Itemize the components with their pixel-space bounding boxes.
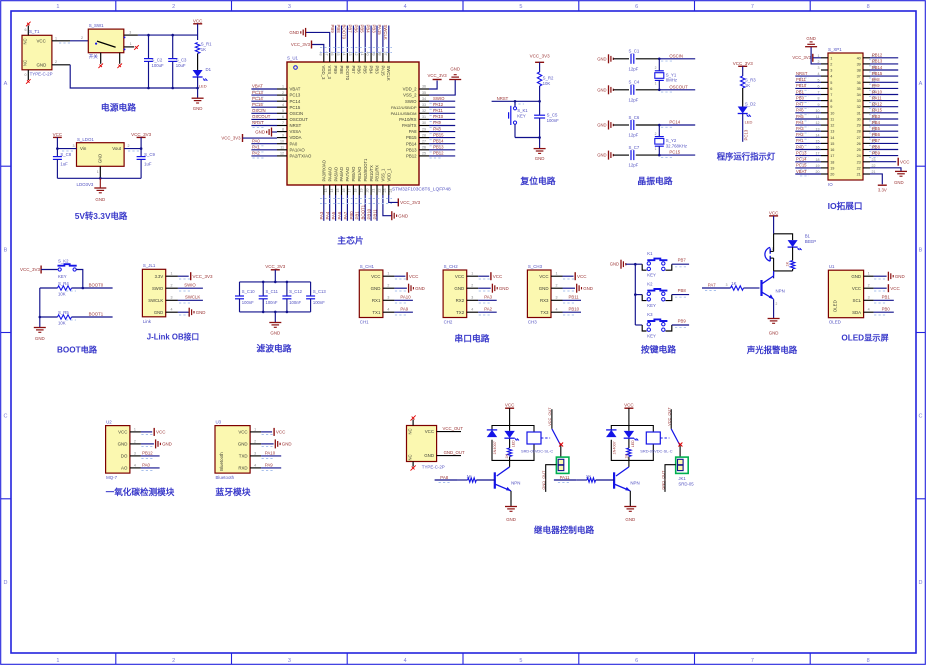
svg-text:CH3: CH3 [528, 320, 537, 325]
svg-text:4: 4 [556, 308, 558, 312]
svg-text:VCC_3V3: VCC_3V3 [428, 73, 448, 78]
svg-text:1: 1 [97, 170, 99, 174]
svg-text:10K: 10K [543, 81, 551, 86]
wire net PA1 header left [795, 142, 821, 144]
wire net PB7 [672, 263, 689, 265]
svg-text:VCC: VCC [425, 429, 434, 434]
svg-text:NRST: NRST [252, 120, 264, 125]
svg-text:DO: DO [121, 454, 128, 459]
svg-text:40: 40 [857, 56, 861, 60]
LED D1 [193, 70, 203, 77]
svg-text:PA3: PA3 [484, 295, 492, 300]
wire net PC14 [251, 100, 277, 102]
svg-text:GND: GND [282, 442, 292, 447]
svg-text:PA3/RX/AO: PA3/RX/AO [322, 160, 327, 181]
S_CH3 pin3 wire net PB11 [551, 299, 563, 301]
svg-text:37: 37 [857, 75, 861, 79]
wire net PA15 [382, 26, 384, 54]
svg-text:PA10/RX: PA10/RX [399, 117, 416, 122]
relay switch contact [541, 437, 550, 439]
svg-text:1: 1 [471, 272, 473, 276]
switch S_SW1 [88, 29, 124, 53]
svg-text:PA6: PA6 [337, 211, 342, 219]
svg-text:PB12: PB12 [406, 154, 417, 159]
svg-text:PB14: PB14 [872, 65, 883, 70]
wire R2 to NRST node [539, 86, 541, 101]
svg-text:GND: GND [894, 180, 904, 185]
J-Link pin3 wire net SWCLK [166, 299, 178, 301]
svg-text:GND: GND [806, 36, 816, 41]
svg-text:PA4/AO: PA4/AO [327, 167, 332, 182]
wire net PA2 header left [795, 136, 821, 138]
svg-text:NRST: NRST [497, 96, 509, 101]
terminal block connector [560, 446, 562, 460]
svg-text:B: B [919, 247, 923, 253]
svg-text:1: 1 [254, 427, 256, 431]
wire net PA1 [251, 149, 277, 151]
svg-text:VCC: VCC [53, 132, 63, 137]
svg-text:PA0: PA0 [252, 138, 260, 143]
S_CH2 pin2 wire to GND [467, 287, 479, 289]
wire S_T1 VCC pin1 to switch [52, 40, 70, 42]
svg-text:6: 6 [282, 115, 284, 119]
svg-text:12pF: 12pF [629, 163, 639, 168]
svg-text:12: 12 [830, 124, 834, 128]
svg-text:PB4: PB4 [365, 25, 370, 34]
svg-text:BOOT电路: BOOT电路 [57, 345, 98, 355]
svg-text:Vout: Vout [112, 146, 122, 151]
resistor 1K relay [507, 448, 511, 457]
svg-text:GND: GND [597, 87, 606, 92]
svg-text:6: 6 [635, 658, 638, 664]
svg-text:GND_OUT: GND_OUT [444, 450, 465, 455]
svg-text:SWIO: SWIO [433, 96, 445, 101]
svg-text:7: 7 [830, 93, 832, 97]
svg-text:PA10: PA10 [872, 89, 883, 94]
svg-text:5: 5 [519, 4, 522, 10]
svg-text:3: 3 [288, 4, 291, 10]
wire emitter to GND alarm [773, 299, 775, 318]
svg-text:12pF: 12pF [629, 133, 639, 138]
ground GND reset [539, 138, 541, 149]
svg-text:PA0: PA0 [796, 144, 804, 149]
J-Link pin2 wire net SWIO [166, 287, 178, 289]
wire net PA8 [429, 131, 455, 133]
wire net PB13 [429, 149, 455, 151]
wire net BOOT1 [364, 195, 366, 221]
svg-text:OLED: OLED [829, 320, 841, 325]
svg-text:8: 8 [867, 4, 870, 10]
svg-text:PA10: PA10 [433, 114, 444, 119]
svg-text:16: 16 [830, 148, 834, 152]
wire net VCC_OUT from TYPE-C [437, 431, 461, 433]
svg-text:PA8: PA8 [872, 77, 880, 82]
svg-text:S_C4: S_C4 [629, 80, 640, 85]
wire net PB0 header left [795, 100, 821, 102]
svg-text:复位电路: 复位电路 [519, 175, 555, 186]
svg-text:VCC_3V3: VCC_3V3 [131, 132, 152, 137]
svg-text:SRD-05: SRD-05 [678, 481, 694, 486]
wire net BOOT0 [346, 26, 348, 54]
svg-text:PA7: PA7 [796, 102, 804, 107]
svg-text:NC: NC [23, 38, 28, 44]
svg-text:MQ-7: MQ-7 [106, 475, 118, 480]
svg-text:3: 3 [830, 69, 832, 73]
svg-text:2: 2 [387, 284, 389, 288]
capacitor S_C1 12pF [630, 54, 632, 64]
wire net OSCIN [659, 58, 695, 60]
svg-text:PB11: PB11 [796, 77, 807, 82]
svg-text:18: 18 [830, 160, 834, 164]
relay coil SRD-05VDC-SL-C [646, 432, 660, 444]
display U1 OLED [828, 270, 863, 318]
capacitor S_C10 100nF [239, 282, 241, 296]
svg-text:PC13: PC13 [252, 90, 263, 95]
svg-text:D: D [919, 580, 923, 586]
svg-text:VCC: VCC [624, 402, 634, 407]
svg-text:GND: GND [450, 67, 460, 72]
svg-text:39: 39 [857, 62, 861, 66]
svg-text:开关: 开关 [89, 53, 99, 60]
svg-text:PC14: PC14 [796, 157, 807, 162]
svg-text:SRD-05VDC-SL-C: SRD-05VDC-SL-C [521, 448, 553, 453]
svg-text:Bluetooth: Bluetooth [216, 475, 235, 480]
svg-text:30: 30 [857, 118, 861, 122]
wire net OSCOUT [251, 118, 277, 120]
svg-text:PB2/BOOT1: PB2/BOOT1 [363, 158, 368, 181]
ground GND filter [274, 312, 276, 323]
svg-text:PA11: PA11 [560, 475, 570, 480]
svg-text:S_C5: S_C5 [547, 112, 558, 117]
svg-text:K3: K3 [647, 312, 653, 317]
wire net PA3 header left [795, 130, 821, 132]
svg-text:2: 2 [128, 144, 130, 148]
svg-text:3.3V: 3.3V [878, 187, 887, 192]
svg-text:PA15: PA15 [872, 108, 883, 113]
svg-text:2: 2 [254, 439, 256, 443]
resistor S_R2 10K [537, 72, 541, 86]
svg-text:PA7: PA7 [343, 211, 348, 219]
key switch K3 [635, 324, 642, 326]
wire net PA10 header right [870, 94, 898, 96]
svg-text:100uF: 100uF [152, 63, 165, 68]
capacitor S_C13 100nF [310, 282, 312, 296]
svg-text:GND: GND [597, 153, 606, 158]
svg-text:PA4: PA4 [325, 211, 330, 219]
key switch S_K2 [58, 268, 61, 271]
svg-text:VCC: VCC [539, 274, 548, 279]
svg-text:PB5: PB5 [872, 126, 881, 131]
svg-text:K1: K1 [647, 251, 653, 256]
svg-text:8: 8 [282, 127, 284, 131]
wire emitter to GND relay [510, 491, 512, 507]
svg-text:PA10: PA10 [265, 450, 276, 455]
wire net SWIO [429, 100, 455, 102]
svg-text:VCC: VCC [371, 274, 380, 279]
svg-text:32: 32 [422, 109, 426, 113]
svg-text:15: 15 [336, 189, 340, 193]
svg-text:主芯片: 主芯片 [337, 235, 364, 246]
svg-text:10: 10 [830, 111, 834, 115]
svg-text:GND: GND [625, 517, 635, 522]
svg-text:PB4: PB4 [369, 66, 374, 75]
svg-text:KEY: KEY [647, 333, 656, 338]
svg-text:VDD_2: VDD_2 [403, 87, 417, 92]
wire net BOOT0 [72, 287, 113, 289]
svg-text:10K: 10K [58, 292, 66, 297]
svg-text:PB0: PB0 [796, 95, 805, 100]
svg-text:PB0: PB0 [882, 307, 891, 312]
wire net PB8 header right [870, 149, 898, 151]
net 3.3V header pin21 [870, 174, 882, 184]
svg-text:PA2/TX/AO: PA2/TX/AO [290, 154, 313, 159]
svg-text:J-Link OB接口: J-Link OB接口 [147, 332, 199, 342]
svg-text:GND: GND [506, 517, 516, 522]
svg-text:3: 3 [818, 66, 820, 70]
svg-text:GND: GND [851, 274, 861, 279]
transistor NPN alarm [773, 271, 775, 278]
wire VDD_1 to VCC_3V3 flag [389, 195, 399, 202]
svg-text:NRST: NRST [796, 71, 808, 76]
svg-text:IO拓展口: IO拓展口 [828, 200, 863, 211]
header S_XP1 IO expansion [828, 53, 863, 180]
svg-text:3.3V: 3.3V [155, 274, 164, 279]
svg-text:13: 13 [324, 189, 328, 193]
svg-text:3: 3 [288, 658, 291, 664]
svg-text:1K: 1K [731, 281, 736, 286]
decor dashes near MCU bottom pins [320, 198, 392, 200]
U2 pin3 wire net PB12 [130, 455, 141, 457]
svg-text:VCC: VCC [156, 430, 166, 435]
svg-text:TXD: TXD [239, 454, 248, 459]
svg-text:2: 2 [830, 62, 832, 66]
svg-text:RXD: RXD [238, 466, 247, 471]
svg-text:PA8: PA8 [433, 126, 441, 131]
svg-text:PB3: PB3 [374, 66, 379, 75]
svg-text:8: 8 [867, 658, 870, 664]
wire net PB6 header right [870, 136, 898, 138]
svg-text:PA9/TX: PA9/TX [402, 123, 417, 128]
wire net SWCLK [388, 26, 390, 54]
svg-text:1: 1 [55, 36, 57, 40]
wire net OSCIN [251, 112, 277, 114]
svg-text:GND: GND [37, 63, 47, 68]
wire net PB10 header left [795, 87, 821, 89]
svg-text:PB8: PB8 [678, 288, 687, 293]
wire LDO GND pin1 [99, 166, 101, 178]
capacitor S_C7 12pF [630, 150, 632, 160]
svg-text:C: C [4, 414, 8, 420]
wire net PB12 header right [870, 57, 898, 59]
svg-text:7: 7 [751, 4, 754, 10]
wire net PB15 [429, 137, 455, 139]
wire net PA10 [429, 118, 455, 120]
wire net PA0 header left [795, 149, 821, 151]
svg-text:18: 18 [354, 189, 358, 193]
svg-text:VCC: VCC [409, 274, 419, 279]
svg-text:1: 1 [282, 85, 284, 89]
wire net NRST [251, 125, 277, 127]
svg-text:10uF: 10uF [176, 63, 186, 68]
resistor S_R1 1K [195, 43, 199, 54]
ground GND for S_C6 [608, 121, 610, 130]
capacitor S_C9 1uF [140, 149, 142, 157]
svg-text:5V转3.3V电路: 5V转3.3V电路 [75, 211, 128, 221]
svg-text:12: 12 [280, 152, 284, 156]
svg-text:24: 24 [857, 154, 861, 158]
svg-text:2: 2 [172, 4, 175, 10]
svg-text:GND: GND [398, 213, 408, 218]
wire filter bottom rail [240, 311, 311, 313]
svg-text:C: C [919, 414, 923, 420]
svg-text:1: 1 [868, 272, 870, 276]
svg-text:PB9: PB9 [872, 150, 881, 155]
svg-text:PB13: PB13 [433, 145, 444, 150]
svg-text:4: 4 [282, 103, 284, 107]
svg-text:9: 9 [830, 105, 832, 109]
wire net PB9 [335, 26, 337, 54]
capacitor S_C2 100uF [148, 35, 150, 59]
wire net GND_OUT relay [665, 465, 676, 492]
svg-text:TX1: TX1 [372, 310, 381, 315]
svg-text:Link: Link [143, 319, 152, 324]
wire VDD_2 to VCC_3V3 flag [429, 81, 437, 90]
svg-text:S_C3: S_C3 [176, 58, 187, 63]
svg-text:23: 23 [383, 189, 387, 193]
svg-text:VSS_1: VSS_1 [381, 168, 386, 181]
svg-text:PB7: PB7 [348, 25, 353, 34]
svg-text:1K: 1K [201, 47, 206, 52]
wire net PC15 header left [795, 167, 821, 169]
wire net PB7 [352, 26, 354, 54]
svg-text:S_LDO1: S_LDO1 [77, 137, 94, 142]
svg-text:PB5: PB5 [363, 66, 368, 75]
ground GND for S_C7 [608, 151, 610, 160]
svg-text:GND: GND [98, 154, 103, 163]
capacitor S_C12 100nF [286, 282, 288, 296]
svg-text:1N4007: 1N4007 [493, 441, 497, 454]
svg-text:VCC_3V3: VCC_3V3 [221, 136, 241, 141]
wire net PC15 [251, 106, 277, 108]
svg-text:PA8: PA8 [440, 475, 448, 480]
U3 pin1 wire to VCC [250, 431, 261, 433]
svg-text:GND: GND [270, 331, 280, 336]
wire net PA8 header right [870, 81, 898, 83]
svg-text:S_C6: S_C6 [629, 115, 640, 120]
svg-text:S_C8: S_C8 [60, 152, 71, 157]
svg-text:22: 22 [857, 166, 861, 170]
svg-text:BEEP: BEEP [805, 239, 817, 244]
svg-text:14: 14 [330, 189, 334, 193]
svg-text:21: 21 [371, 189, 375, 193]
svg-text:BOOT1: BOOT1 [89, 312, 104, 317]
svg-text:GND: GND [238, 442, 248, 447]
svg-text:25: 25 [857, 148, 861, 152]
svg-text:GND_OUT: GND_OUT [541, 470, 546, 490]
svg-text:PA9: PA9 [433, 120, 441, 125]
svg-text:按键电路: 按键电路 [641, 344, 676, 355]
svg-text:程序运行指示灯: 程序运行指示灯 [717, 152, 776, 162]
svg-text:S_C11: S_C11 [266, 289, 279, 294]
LED S_D2 [738, 107, 748, 114]
key switch K2 [635, 294, 642, 296]
svg-text:PC15: PC15 [796, 163, 807, 168]
svg-text:S_CH3: S_CH3 [528, 264, 543, 269]
svg-text:VBAT: VBAT [252, 84, 263, 89]
svg-text:PB0: PB0 [349, 211, 354, 220]
svg-text:PB11: PB11 [569, 295, 580, 300]
svg-text:PA5/AO: PA5/AO [333, 167, 338, 182]
svg-text:100nF: 100nF [547, 118, 560, 123]
svg-text:19: 19 [360, 189, 364, 193]
svg-text:S_K2: S_K2 [58, 258, 69, 263]
svg-text:1K: 1K [745, 83, 750, 88]
svg-text:2: 2 [556, 284, 558, 288]
wire net PB1 [358, 195, 360, 221]
svg-text:PB8: PB8 [872, 144, 881, 149]
svg-text:S_C12: S_C12 [289, 289, 302, 294]
resistor 1K relay base [576, 479, 587, 481]
svg-text:PC13: PC13 [290, 93, 301, 98]
svg-text:PB8: PB8 [339, 66, 344, 75]
connector S_JL1 J-Link [142, 269, 165, 317]
wire net PB9 header right [870, 155, 898, 157]
svg-text:OSCIN: OSCIN [669, 53, 683, 58]
svg-text:一氧化碳检测模块: 一氧化碳检测模块 [106, 486, 175, 497]
wire net PA12 [429, 106, 455, 108]
wire net PA9 header right [870, 87, 898, 89]
svg-text:S_Y2: S_Y2 [666, 138, 677, 143]
ground GND of power circuit [197, 88, 199, 98]
svg-text:33: 33 [422, 103, 426, 107]
svg-text:4: 4 [404, 4, 407, 10]
svg-text:LED: LED [512, 440, 516, 447]
svg-text:S_Y1: S_Y1 [666, 72, 677, 77]
svg-text:6: 6 [25, 28, 27, 32]
svg-text:PA6/AO: PA6/AO [339, 167, 344, 182]
svg-text:SCL: SCL [853, 298, 862, 303]
wire net PA6 [341, 195, 343, 221]
U1 pin4 wire net PB0 [864, 311, 874, 313]
wire net PA11 header right [870, 100, 898, 102]
svg-text:VBAT: VBAT [290, 87, 301, 92]
svg-text:PC14: PC14 [290, 99, 301, 104]
svg-text:SRD-05VDC-SL-C: SRD-05VDC-SL-C [640, 448, 672, 453]
svg-text:PB9: PB9 [330, 25, 335, 34]
J-Link pin4 wire to GND [166, 311, 178, 313]
svg-text:3: 3 [254, 451, 256, 455]
wire net PC13 to LED [742, 114, 744, 142]
svg-text:PA3: PA3 [319, 211, 324, 219]
wire net PB11 [376, 195, 378, 221]
svg-text:S_T1: S_T1 [29, 29, 40, 34]
svg-text:VCC_3V3: VCC_3V3 [193, 274, 214, 279]
svg-text:11: 11 [280, 146, 284, 150]
svg-text:PA5: PA5 [796, 114, 804, 119]
svg-text:PC14: PC14 [252, 96, 263, 101]
wire net PB9 [672, 324, 689, 326]
svg-text:GND: GND [193, 106, 203, 111]
svg-text:PA11/USB/DM: PA11/USB/DM [391, 111, 417, 116]
svg-text:U1: U1 [829, 264, 835, 269]
wire keys left rail [634, 264, 636, 325]
svg-text:4: 4 [254, 463, 256, 467]
wire net PB11 header left [795, 81, 821, 83]
svg-text:PB10: PB10 [796, 83, 807, 88]
svg-text:RX2: RX2 [456, 298, 465, 303]
S_CH1 pin4 wire net PA9 [383, 311, 395, 313]
capacitor S_C4 12pF [630, 85, 632, 95]
